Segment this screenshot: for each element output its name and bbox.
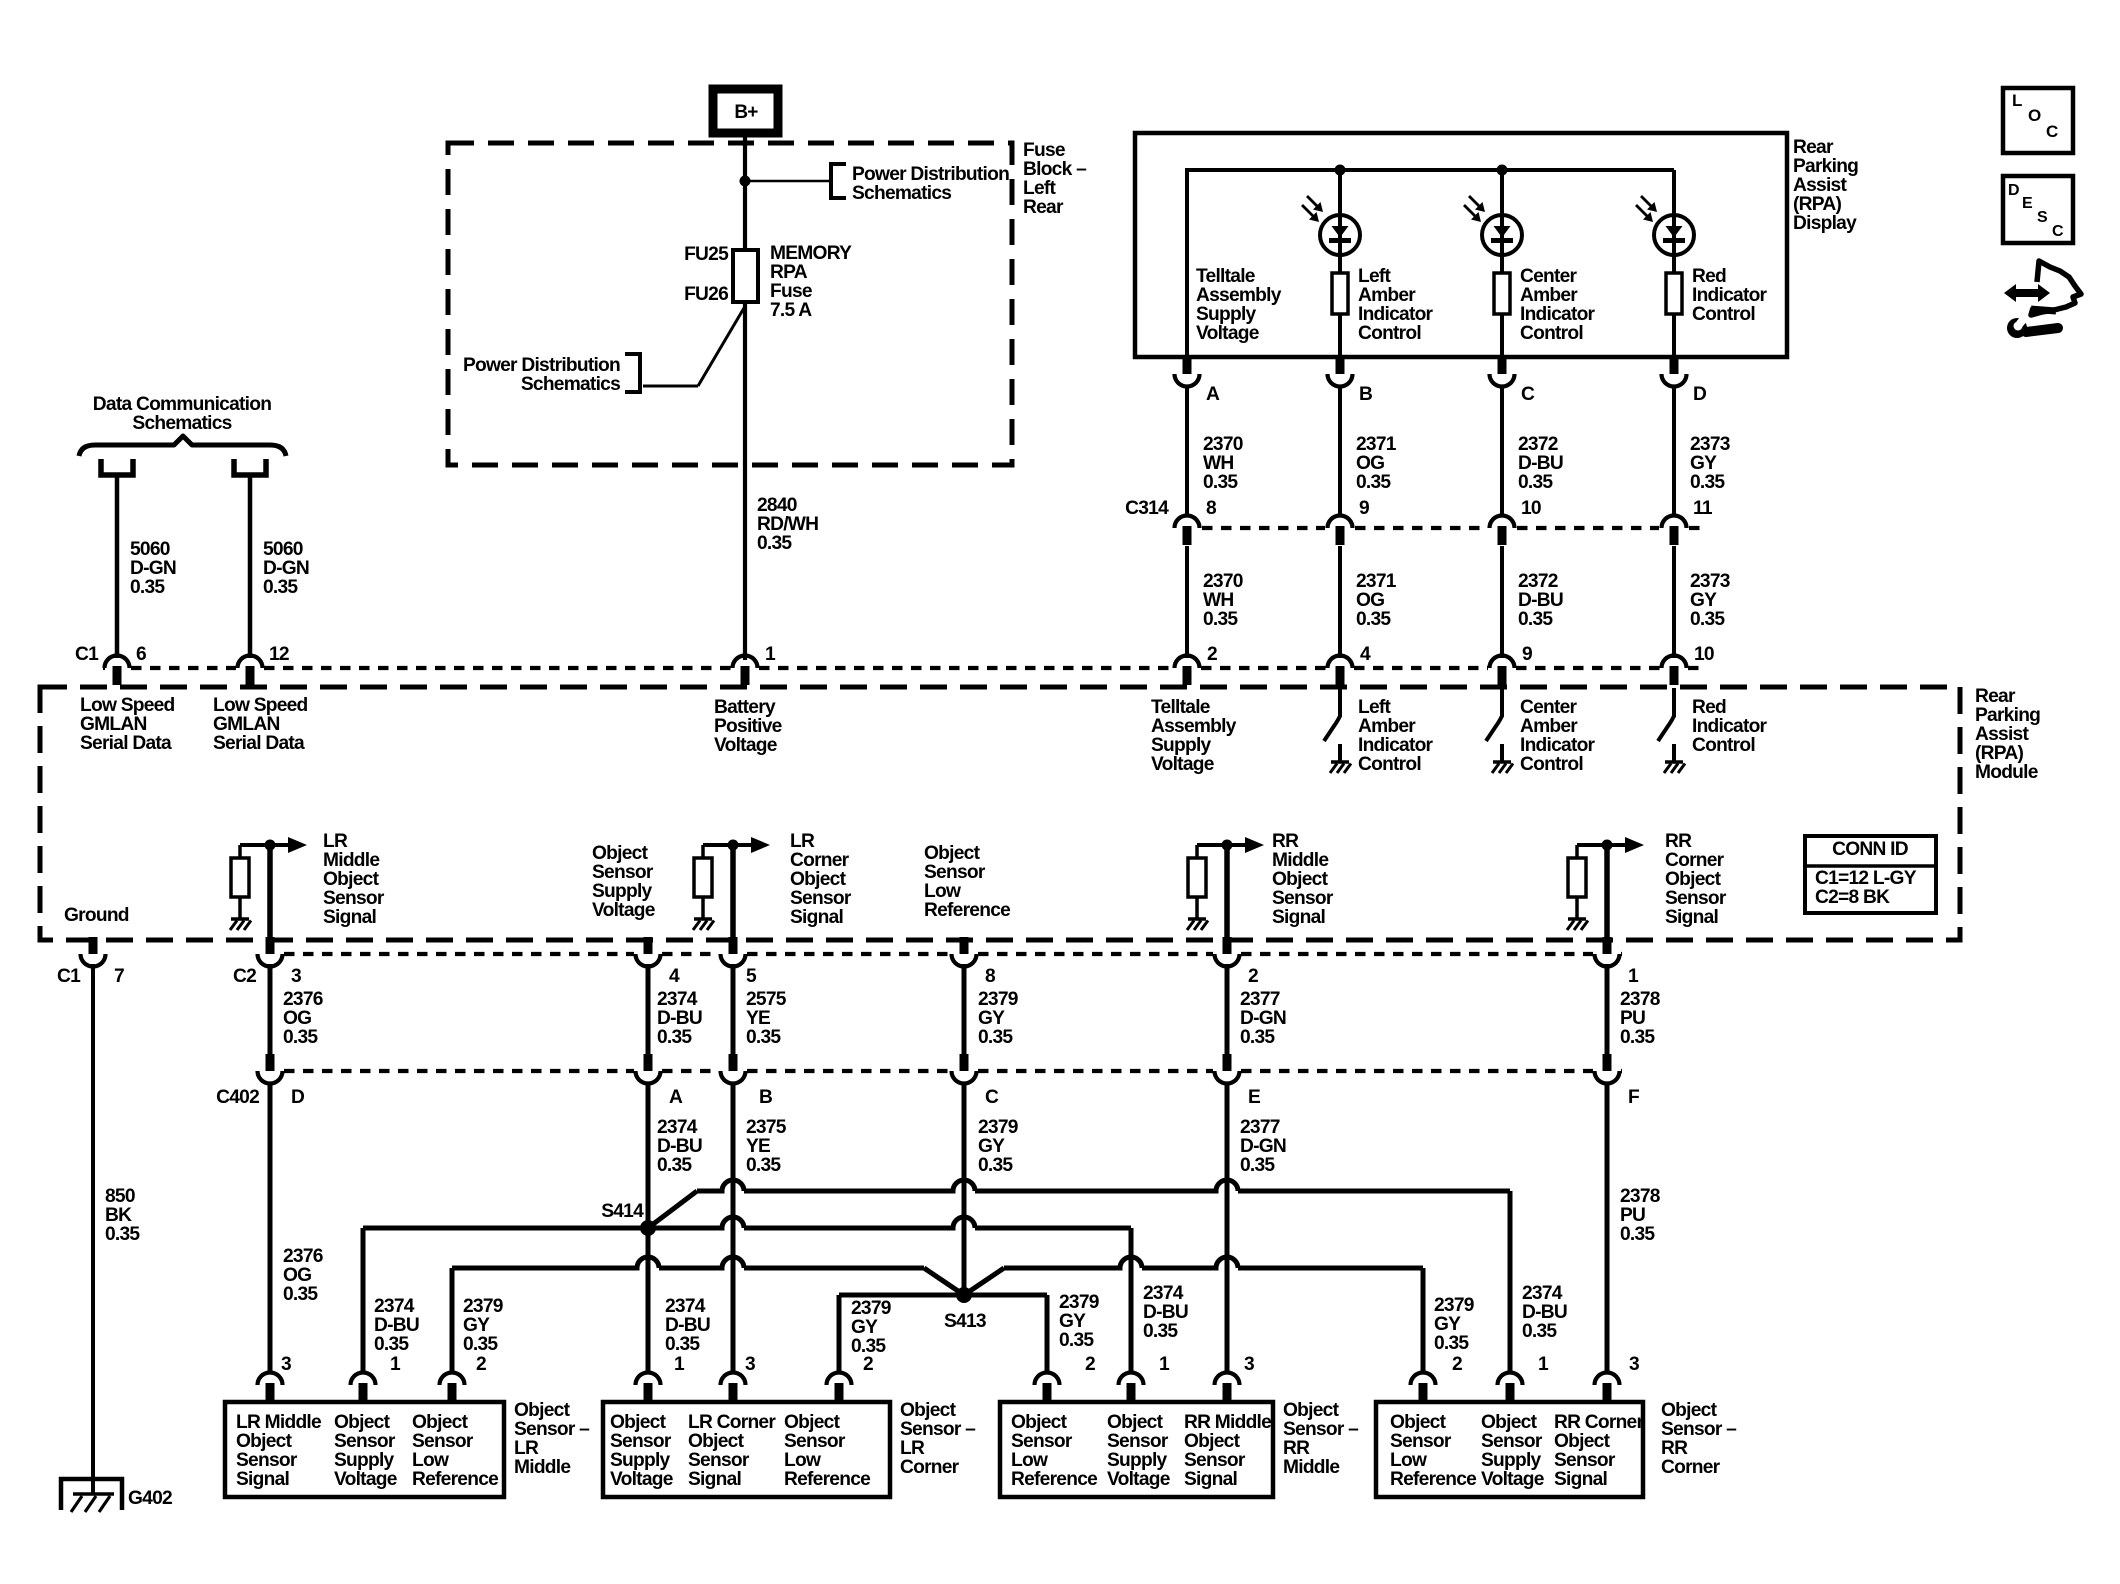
connector C2 pin 8: [960, 937, 969, 954]
svg-text:D-BU: D-BU: [1522, 1302, 1567, 1323]
svg-text:YE: YE: [746, 1008, 771, 1029]
svg-text:0.35: 0.35: [463, 1334, 498, 1355]
connector C402 pin A: [644, 1054, 653, 1071]
object sensor RR corner box: [1376, 1402, 1643, 1497]
svg-text:Object: Object: [412, 1412, 469, 1433]
svg-text:OG: OG: [1356, 590, 1384, 611]
svg-text:2: 2: [1207, 644, 1217, 665]
svg-text:Module: Module: [1975, 762, 2039, 783]
svg-text:Voltage: Voltage: [592, 900, 656, 921]
svg-text:D: D: [1693, 384, 1707, 405]
connector C402 pin E: [1223, 1054, 1232, 1071]
svg-text:1: 1: [674, 1354, 685, 1375]
svg-text:0.35: 0.35: [283, 1284, 318, 1305]
svg-text:Low: Low: [1390, 1450, 1427, 1471]
svg-text:CONN ID: CONN ID: [1832, 839, 1909, 860]
svg-text:C2=8 BK: C2=8 BK: [1815, 887, 1890, 908]
svg-text:Sensor: Sensor: [1107, 1431, 1169, 1452]
svg-text:LR Middle: LR Middle: [236, 1412, 322, 1433]
resistor center amber: [1494, 273, 1510, 314]
wire: low-ref line 3 right to RR corner pin 2: [1004, 1257, 1423, 1268]
svg-text:Object: Object: [1390, 1412, 1447, 1433]
svg-text:Center: Center: [1520, 266, 1578, 287]
svg-text:OG: OG: [1356, 453, 1384, 474]
object sensor LR middle box: [225, 1402, 504, 1497]
svg-text:Object: Object: [1283, 1400, 1340, 1421]
svg-text:Center: Center: [1520, 697, 1578, 718]
svg-text:Sensor: Sensor: [1390, 1431, 1452, 1452]
svg-text:2: 2: [1248, 966, 1258, 987]
svg-text:2374: 2374: [657, 989, 698, 1010]
switch to ground: Red Indicator: [1672, 688, 1676, 717]
svg-text:2379: 2379: [978, 989, 1018, 1010]
svg-text:GMLAN: GMLAN: [213, 714, 280, 735]
svg-text:Supply: Supply: [1481, 1450, 1542, 1471]
svg-text:D-GN: D-GN: [1240, 1136, 1286, 1157]
svg-text:2379: 2379: [978, 1117, 1018, 1138]
svg-text:0.35: 0.35: [978, 1027, 1013, 1048]
svg-text:Supply: Supply: [334, 1450, 395, 1471]
svg-text:Signal: Signal: [1272, 907, 1325, 928]
wire: low-ref line 3 from LR middle pin 2: [450, 1268, 455, 1374]
svg-text:Control: Control: [1358, 323, 1421, 344]
svg-text:Object: Object: [784, 1412, 841, 1433]
DESC button: [2003, 176, 2073, 243]
svg-text:Block –: Block –: [1023, 159, 1087, 180]
svg-text:Left: Left: [1358, 266, 1392, 287]
svg-text:GY: GY: [978, 1136, 1005, 1157]
svg-text:Reference: Reference: [784, 1469, 871, 1490]
svg-text:3: 3: [1629, 1354, 1639, 1375]
svg-text:Red: Red: [1692, 697, 1726, 718]
svg-text:0.35: 0.35: [978, 1155, 1013, 1176]
svg-text:2370: 2370: [1203, 434, 1243, 455]
svg-text:Corner: Corner: [1661, 1457, 1721, 1478]
wire C: C402-C to S413: [962, 1082, 967, 1295]
svg-text:Assist: Assist: [1793, 175, 1847, 196]
wire: supply line 2 right to RR middle pin 1: [648, 1217, 1131, 1228]
svg-text:Indicator: Indicator: [1358, 304, 1434, 325]
svg-text:Schematics: Schematics: [852, 183, 951, 204]
svg-text:FU25: FU25: [684, 244, 729, 265]
svg-text:Signal: Signal: [790, 907, 843, 928]
svg-text:Object: Object: [334, 1412, 391, 1433]
svg-text:S: S: [2037, 209, 2048, 226]
connector C314 pin 8: [1175, 516, 1200, 529]
svg-text:Display: Display: [1793, 213, 1857, 234]
svg-text:Control: Control: [1358, 754, 1421, 775]
svg-text:Data Communication: Data Communication: [93, 394, 271, 415]
svg-text:Amber: Amber: [1358, 716, 1416, 737]
wire below C314: [1185, 546, 1189, 658]
svg-text:0.35: 0.35: [1620, 1224, 1655, 1245]
svg-text:2371: 2371: [1356, 434, 1397, 455]
svg-text:0.35: 0.35: [1690, 472, 1725, 493]
object sensor LR corner box: [603, 1402, 890, 1497]
off-page bracket left: [625, 354, 640, 392]
svg-text:D-GN: D-GN: [263, 558, 309, 579]
wire: supply line 1 to RR corner pin 1: [697, 1180, 1510, 1191]
svg-text:Supply: Supply: [1196, 304, 1257, 325]
svg-text:Supply: Supply: [1151, 735, 1212, 756]
svg-text:2378: 2378: [1620, 1186, 1661, 1207]
wire 5060 D-GN: [248, 475, 253, 658]
svg-text:0.35: 0.35: [757, 533, 792, 554]
svg-text:Corner: Corner: [790, 850, 850, 871]
svg-text:1: 1: [1628, 966, 1639, 987]
svg-text:D: D: [2008, 182, 2019, 199]
brace: data communication: [79, 436, 286, 456]
svg-text:Parking: Parking: [1793, 156, 1858, 177]
svg-text:5060: 5060: [130, 539, 170, 560]
svg-text:Sensor: Sensor: [784, 1431, 846, 1452]
svg-text:7: 7: [114, 966, 124, 987]
svg-text:Sensor: Sensor: [1184, 1450, 1246, 1471]
sensor connector pin 3 at x=270: [258, 1373, 283, 1386]
svg-text:Object: Object: [1011, 1412, 1068, 1433]
wire: B+ to fuse and module pin 1: [743, 131, 747, 660]
svg-text:Red: Red: [1692, 266, 1726, 287]
svg-text:GY: GY: [851, 1317, 878, 1338]
svg-text:Corner: Corner: [900, 1457, 960, 1478]
connector pin C of RPA display: [1498, 357, 1507, 374]
svg-text:Signal: Signal: [1184, 1469, 1237, 1490]
off-page bracket right: [831, 164, 846, 198]
svg-text:2376: 2376: [283, 1246, 323, 1267]
sensor connector pin 2 at x=452: [440, 1373, 465, 1386]
svg-text:1: 1: [765, 644, 776, 665]
connector pin A of RPA display: [1183, 357, 1192, 374]
svg-text:D-BU: D-BU: [1518, 453, 1563, 474]
svg-text:S414: S414: [601, 1201, 644, 1222]
connector C402 face (dotted): [284, 1069, 634, 1073]
svg-text:10: 10: [1694, 644, 1714, 665]
LR middle object sensor signal driver: [240, 843, 290, 847]
wire below C314: [1672, 546, 1676, 658]
svg-text:Middle: Middle: [1272, 850, 1329, 871]
svg-text:Object: Object: [1184, 1431, 1241, 1452]
svg-text:B+: B+: [734, 102, 758, 123]
svg-text:0.35: 0.35: [746, 1027, 781, 1048]
svg-text:5060: 5060: [263, 539, 303, 560]
svg-text:Object: Object: [900, 1400, 957, 1421]
svg-text:Positive: Positive: [714, 716, 783, 737]
svg-text:2376: 2376: [283, 989, 323, 1010]
svg-text:0.35: 0.35: [1356, 609, 1391, 630]
connector C2 pin 4: [644, 937, 653, 954]
svg-text:Sensor: Sensor: [412, 1431, 474, 1452]
module connector pin 10: [1662, 656, 1687, 669]
svg-text:Voltage: Voltage: [1196, 323, 1260, 344]
connector C314 pin 10: [1490, 516, 1515, 529]
wire: diagonal into S413: [924, 1268, 964, 1295]
svg-text:10: 10: [1521, 498, 1541, 519]
svg-text:Supply: Supply: [610, 1450, 671, 1471]
object sensor RR middle box: [1000, 1402, 1273, 1497]
svg-text:Low Speed: Low Speed: [213, 695, 308, 716]
svg-text:RR: RR: [1665, 831, 1692, 852]
switch to ground: Center Amber: [1500, 688, 1504, 717]
svg-text:8: 8: [985, 966, 996, 987]
svg-text:3: 3: [1244, 1354, 1254, 1375]
svg-text:RR Middle: RR Middle: [1184, 1412, 1272, 1433]
svg-text:Voltage: Voltage: [610, 1469, 674, 1490]
svg-text:Serial Data: Serial Data: [80, 733, 172, 754]
node: bus junction left amber: [1335, 165, 1346, 176]
svg-text:C: C: [2052, 223, 2064, 240]
svg-text:4: 4: [669, 966, 680, 987]
wire 850 BK to G402: [91, 964, 95, 1494]
svg-text:3: 3: [281, 1354, 291, 1375]
connector pin D of RPA display: [1670, 357, 1679, 374]
svg-text:WH: WH: [1203, 590, 1233, 611]
svg-text:Sensor: Sensor: [790, 888, 852, 909]
svg-text:0.35: 0.35: [283, 1027, 318, 1048]
svg-text:2: 2: [863, 1354, 873, 1375]
svg-text:Voltage: Voltage: [714, 735, 778, 756]
wires C2 to C402: [268, 964, 273, 1054]
svg-text:Rear: Rear: [1793, 137, 1834, 158]
svg-text:Amber: Amber: [1358, 285, 1416, 306]
CONN ID table: [1805, 836, 1936, 913]
svg-text:0.35: 0.35: [665, 1334, 700, 1355]
svg-text:0.35: 0.35: [374, 1334, 409, 1355]
svg-text:Signal: Signal: [1665, 907, 1718, 928]
svg-text:2377: 2377: [1240, 989, 1280, 1010]
svg-text:RR: RR: [1661, 1438, 1688, 1459]
module connector pin 4: [1328, 656, 1353, 669]
svg-text:Sensor: Sensor: [1554, 1450, 1616, 1471]
svg-text:C: C: [1521, 384, 1535, 405]
svg-text:Voltage: Voltage: [334, 1469, 398, 1490]
svg-text:Sensor: Sensor: [1481, 1431, 1543, 1452]
wire B: C402-B to LR corner pin 3: [731, 1082, 736, 1374]
svg-text:2370: 2370: [1203, 571, 1243, 592]
svg-text:E: E: [2022, 195, 2033, 212]
svg-text:0.35: 0.35: [130, 577, 165, 598]
svg-text:8: 8: [1206, 498, 1217, 519]
svg-text:LR: LR: [514, 1438, 539, 1459]
svg-text:Reference: Reference: [924, 900, 1011, 921]
svg-text:2: 2: [476, 1354, 486, 1375]
svg-text:LR: LR: [790, 831, 815, 852]
svg-text:Low: Low: [1011, 1450, 1048, 1471]
svg-text:2379: 2379: [851, 1298, 891, 1319]
sensor connector pin 1 at x=1510: [1498, 1373, 1523, 1386]
svg-text:Sensor: Sensor: [323, 888, 385, 909]
svg-text:0.35: 0.35: [1356, 472, 1391, 493]
sensor connector pin 2 at x=1423: [1411, 1373, 1436, 1386]
svg-text:Low: Low: [412, 1450, 449, 1471]
RR corner object sensor signal driver: [1577, 843, 1627, 847]
battery terminal B+: [713, 89, 778, 133]
module connector pin 9: [1490, 656, 1515, 669]
svg-text:GY: GY: [1059, 1311, 1086, 1332]
svg-text:0.35: 0.35: [1690, 609, 1725, 630]
svg-text:Supply: Supply: [592, 881, 653, 902]
connector C1 pin 7 (ground): [89, 937, 98, 954]
svg-text:RR: RR: [1283, 1438, 1310, 1459]
svg-text:B: B: [1359, 384, 1372, 405]
svg-text:D-BU: D-BU: [374, 1315, 419, 1336]
svg-text:Serial Data: Serial Data: [213, 733, 305, 754]
svg-text:Assist: Assist: [1975, 724, 2029, 745]
svg-text:Fuse: Fuse: [1023, 140, 1066, 161]
svg-text:Object: Object: [514, 1400, 571, 1421]
svg-text:D-BU: D-BU: [665, 1315, 710, 1336]
svg-text:Sensor –: Sensor –: [1283, 1419, 1359, 1440]
svg-text:Voltage: Voltage: [1151, 754, 1215, 775]
svg-text:C: C: [2046, 122, 2058, 141]
LED left amber indicator: [1338, 170, 1342, 273]
svg-text:2374: 2374: [657, 1117, 698, 1138]
svg-text:Object: Object: [924, 843, 981, 864]
svg-text:Fuse: Fuse: [770, 281, 813, 302]
svg-text:Object: Object: [1554, 1431, 1611, 1452]
svg-text:5: 5: [746, 966, 757, 987]
svg-text:Object: Object: [1107, 1412, 1164, 1433]
svg-text:(RPA): (RPA): [1975, 743, 2023, 764]
fuse block - left rear (dashed box): [448, 143, 1012, 465]
connector C2 pin 3: [266, 937, 275, 954]
svg-text:Left: Left: [1358, 697, 1392, 718]
svg-text:LR: LR: [323, 831, 348, 852]
wire: display supply bus: [1187, 168, 1674, 172]
svg-text:S413: S413: [944, 1311, 986, 1332]
svg-text:Indicator: Indicator: [1692, 716, 1768, 737]
svg-text:Signal: Signal: [688, 1469, 741, 1490]
svg-text:PU: PU: [1620, 1205, 1645, 1226]
svg-text:Battery: Battery: [714, 697, 776, 718]
svg-text:11: 11: [1693, 498, 1713, 519]
svg-text:Amber: Amber: [1520, 716, 1578, 737]
svg-text:0.35: 0.35: [1143, 1321, 1178, 1342]
wire D: C402-D to LR middle pin 3: [268, 1082, 273, 1374]
svg-text:2379: 2379: [1434, 1295, 1474, 1316]
svg-text:Middle: Middle: [514, 1457, 571, 1478]
svg-text:Object: Object: [1481, 1412, 1538, 1433]
svg-text:Object: Object: [790, 869, 847, 890]
sensor connector pin 3 at x=1227: [1215, 1373, 1240, 1386]
svg-text:4: 4: [1360, 644, 1371, 665]
svg-text:Object: Object: [688, 1431, 745, 1452]
svg-text:Signal: Signal: [1554, 1469, 1607, 1490]
svg-text:Amber: Amber: [1520, 285, 1578, 306]
resistor red: [1666, 273, 1682, 314]
svg-text:0.35: 0.35: [1522, 1321, 1557, 1342]
svg-text:GY: GY: [978, 1008, 1005, 1029]
LED red indicator: [1672, 170, 1676, 273]
connector C1 pin 6: [105, 656, 130, 669]
switch to ground: Left Amber: [1338, 688, 1342, 717]
svg-text:RR: RR: [1272, 831, 1299, 852]
svg-text:Indicator: Indicator: [1520, 304, 1596, 325]
connector C314 pin 9: [1328, 516, 1353, 529]
svg-text:Middle: Middle: [323, 850, 380, 871]
interactive arrow + wrench icon: [2031, 261, 2081, 315]
svg-text:1: 1: [1538, 1354, 1549, 1375]
svg-text:YE: YE: [746, 1136, 771, 1157]
off-page terminal GMLAN x=250: [234, 459, 266, 475]
svg-text:Voltage: Voltage: [1107, 1469, 1171, 1490]
node: junction at B+ feed: [740, 176, 751, 187]
svg-text:850: 850: [105, 1186, 135, 1207]
svg-text:Control: Control: [1520, 754, 1583, 775]
sensor connector pin 1 at x=1131: [1119, 1373, 1144, 1386]
connector C314 face (dotted): [1202, 526, 1325, 530]
svg-text:Sensor –: Sensor –: [514, 1419, 590, 1440]
LOC button: [2003, 88, 2073, 153]
svg-text:Control: Control: [1520, 323, 1583, 344]
svg-text:Supply: Supply: [1107, 1450, 1168, 1471]
svg-text:Low Speed: Low Speed: [80, 695, 175, 716]
svg-text:9: 9: [1359, 498, 1369, 519]
connector C402 pin C: [960, 1054, 969, 1071]
wire A: C402-A to S414 to LR corner pin 1: [646, 1082, 651, 1374]
svg-text:Corner: Corner: [1665, 850, 1725, 871]
svg-text:B: B: [759, 1087, 772, 1108]
svg-text:9: 9: [1522, 644, 1532, 665]
svg-text:7.5 A: 7.5 A: [770, 300, 812, 321]
svg-text:2373: 2373: [1690, 571, 1730, 592]
svg-text:D: D: [291, 1087, 305, 1108]
svg-text:F: F: [1628, 1087, 1640, 1108]
splice S414: [640, 1220, 656, 1236]
svg-text:Left: Left: [1023, 178, 1057, 199]
svg-text:Low: Low: [784, 1450, 821, 1471]
svg-text:E: E: [1248, 1087, 1261, 1108]
wire 237x to C314 pin: [1672, 385, 1676, 517]
svg-text:GY: GY: [1434, 1314, 1461, 1335]
wire: supply line 2 (S414) left to LR middle pin 1: [363, 1226, 648, 1231]
svg-text:0.35: 0.35: [1518, 609, 1553, 630]
connector C2 pin 1: [1603, 937, 1612, 954]
svg-text:Assembly: Assembly: [1151, 716, 1237, 737]
svg-text:2378: 2378: [1620, 989, 1661, 1010]
wire E: C402-E to RR middle pin 3: [1225, 1082, 1230, 1374]
svg-text:C314: C314: [1125, 498, 1169, 519]
svg-text:Object: Object: [1665, 869, 1722, 890]
svg-text:C1: C1: [75, 644, 99, 665]
svg-text:0.35: 0.35: [105, 1224, 140, 1245]
connector C402 pin D: [266, 1054, 275, 1071]
svg-text:2374: 2374: [374, 1296, 415, 1317]
svg-text:Voltage: Voltage: [1481, 1469, 1545, 1490]
svg-text:A: A: [1206, 384, 1220, 405]
svg-text:D-GN: D-GN: [1240, 1008, 1286, 1029]
wire: S414 diagonal to supply line 1: [648, 1191, 697, 1228]
svg-text:2575: 2575: [746, 989, 787, 1010]
svg-text:Telltale: Telltale: [1196, 266, 1256, 287]
svg-text:Sensor: Sensor: [236, 1450, 298, 1471]
svg-text:A: A: [669, 1087, 683, 1108]
svg-text:2374: 2374: [1522, 1283, 1563, 1304]
wire: link to power distribution schematics (right): [745, 180, 831, 183]
connector C314 pin 11: [1662, 516, 1687, 529]
connector C2 pin 2: [1223, 937, 1232, 954]
module connector pin 2: [1175, 656, 1200, 669]
svg-text:GY: GY: [1690, 453, 1717, 474]
connector C402 pin B: [729, 1054, 738, 1071]
module top connector face (dotted): [103, 666, 105, 670]
svg-text:2379: 2379: [463, 1296, 503, 1317]
svg-text:GMLAN: GMLAN: [80, 714, 147, 735]
wire 237x to C314 pin: [1500, 385, 1504, 517]
svg-text:Sensor: Sensor: [924, 862, 986, 883]
svg-text:Power Distribution: Power Distribution: [463, 355, 620, 376]
svg-text:Sensor: Sensor: [688, 1450, 750, 1471]
svg-text:Control: Control: [1692, 735, 1755, 756]
